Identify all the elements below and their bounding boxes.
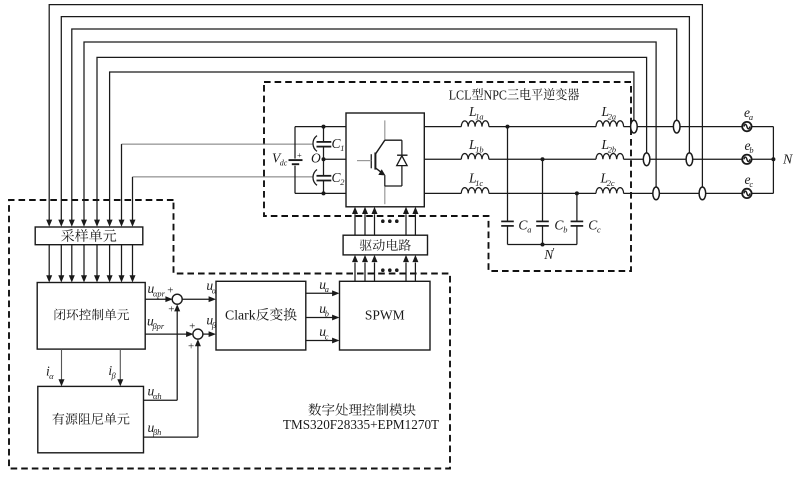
svg-text:O: O — [311, 151, 321, 166]
svg-text:c: c — [749, 180, 753, 189]
svg-text:2a: 2a — [608, 112, 616, 121]
svg-text:a: a — [527, 226, 531, 235]
svg-text:αpr: αpr — [153, 289, 166, 298]
svg-text:LCL: LCL — [449, 88, 472, 103]
svg-text:αh: αh — [153, 392, 162, 401]
svg-text:a: a — [325, 285, 329, 294]
svg-text:+: + — [297, 150, 302, 160]
svg-text:1: 1 — [340, 144, 344, 153]
svg-text:NPC: NPC — [484, 88, 507, 103]
svg-text:2: 2 — [340, 178, 344, 187]
svg-text:SPWM: SPWM — [365, 308, 405, 323]
svg-text:+: + — [189, 320, 195, 332]
svg-text:βpr: βpr — [152, 322, 165, 331]
svg-text:2b: 2b — [608, 145, 616, 154]
svg-text:2c: 2c — [607, 179, 615, 188]
svg-text:c: c — [597, 226, 601, 235]
svg-text:N: N — [782, 153, 793, 168]
svg-text:1b: 1b — [475, 145, 483, 154]
svg-text:dc: dc — [280, 159, 288, 168]
svg-text:+: + — [168, 304, 174, 316]
svg-text:TMS320F28335+EPM1270T: TMS320F28335+EPM1270T — [283, 417, 439, 432]
svg-text:Clark: Clark — [225, 308, 256, 323]
svg-text:b: b — [563, 226, 567, 235]
svg-text:1a: 1a — [475, 112, 483, 121]
svg-text:α: α — [49, 372, 54, 381]
svg-text:1c: 1c — [475, 179, 483, 188]
svg-text:β: β — [111, 372, 117, 381]
svg-text:βh: βh — [152, 428, 161, 437]
svg-text:b: b — [749, 146, 753, 155]
svg-text:b: b — [325, 309, 329, 318]
svg-text:c: c — [325, 332, 329, 341]
svg-text:a: a — [749, 113, 753, 122]
svg-text:+: + — [167, 285, 173, 297]
svg-text:+: + — [188, 340, 194, 352]
